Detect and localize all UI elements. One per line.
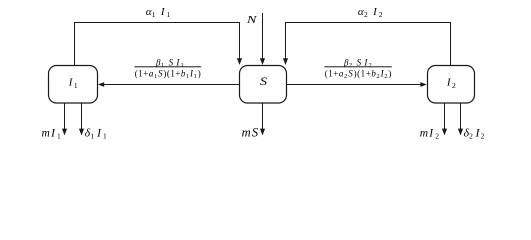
label delta1 I1	[85, 127, 107, 140]
wire S to I1 infection arrow	[98, 82, 240, 87]
fraction bar beta2	[324, 66, 392, 67]
wire S to I2 infection arrow	[287, 82, 427, 87]
svg-text:mI1: mI1	[42, 127, 63, 140]
svg-text:mS: mS	[242, 125, 260, 139]
label N	[246, 14, 258, 26]
box I2	[428, 66, 475, 104]
svg-text:I1: I1	[68, 77, 78, 91]
wire mI2 out of I2 bottom	[442, 103, 447, 135]
box S	[240, 66, 287, 104]
svg-text:α1I1: α1I1	[146, 6, 171, 19]
label alpha1 I1	[146, 6, 171, 19]
wire delta1 I1 out of I1 bottom	[79, 103, 84, 135]
wire mS out of S bottom	[260, 103, 265, 135]
svg-text:N: N	[246, 14, 258, 26]
svg-text:δ1I1: δ1I1	[85, 127, 107, 140]
label mI2	[420, 127, 441, 140]
svg-text:δ2I2: δ2I2	[464, 127, 485, 140]
wire alpha2 from I2 top to S top-right	[283, 23, 451, 66]
label mS	[242, 125, 260, 139]
label delta2 I2	[464, 127, 485, 140]
box I1	[49, 66, 98, 104]
label alpha2 I2	[358, 6, 383, 19]
label mI1	[42, 127, 63, 140]
svg-text:mI2: mI2	[420, 127, 441, 140]
wire N into S top	[260, 13, 265, 65]
label I2	[446, 77, 456, 91]
wire delta2 I2 out of I2 bottom	[458, 103, 463, 135]
label S	[260, 74, 268, 88]
wire alpha1 from I1 top to S top-left	[75, 23, 243, 66]
svg-text:α2I2: α2I2	[358, 6, 383, 19]
label fraction beta2: numerator	[324, 57, 392, 80]
label I1	[68, 77, 78, 91]
svg-text:(1+a2S)(1+b2I2): (1+a2S)(1+b2I2)	[325, 69, 392, 81]
label fraction beta1: numerator	[134, 57, 201, 80]
fraction bar beta1	[134, 66, 201, 67]
svg-text:(1+a1S)(1+b1I1): (1+a1S)(1+b1I1)	[135, 69, 201, 81]
svg-text:I2: I2	[446, 77, 456, 91]
svg-text:S: S	[260, 74, 268, 88]
wire mI1 out of I1 bottom	[62, 103, 67, 135]
